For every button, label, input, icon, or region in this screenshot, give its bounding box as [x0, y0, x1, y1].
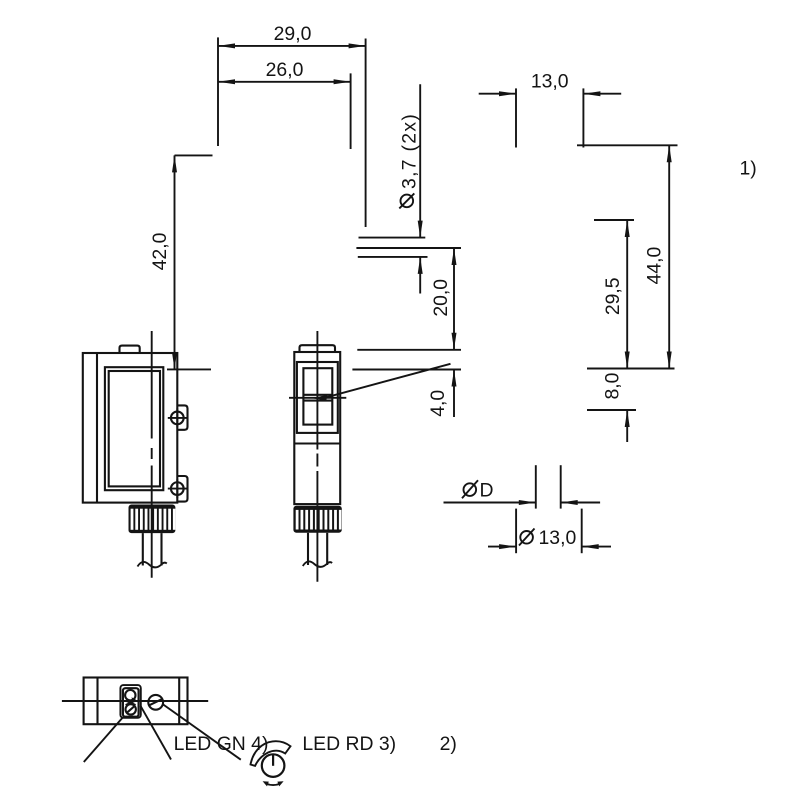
svg-text:LED GN 4): LED GN 4)	[174, 733, 269, 755]
potentiometer symbol slot	[272, 755, 274, 766]
dimension 8,0 arrow tail	[626, 410, 628, 442]
side view cable break	[303, 561, 332, 566]
dimension 26,0 line	[218, 81, 351, 83]
dimension 4,0 line	[453, 370, 455, 418]
housing top reference line	[357, 349, 461, 351]
window top reference line	[352, 369, 461, 371]
dimension diameter 13,0 left extension line	[515, 509, 517, 554]
svg-text:13,0: 13,0	[539, 527, 577, 549]
leader line from lens to 4,0 band	[324, 364, 451, 398]
dimension diameter 13,0 line left tail	[488, 546, 516, 548]
dimension diameter D left extension line	[535, 465, 537, 508]
bottom view body	[84, 678, 188, 725]
front view centerline	[151, 331, 153, 439]
dimension 42,0 bottom tick	[167, 368, 211, 370]
svg-text:8,0: 8,0	[602, 372, 624, 399]
front view body	[83, 353, 178, 503]
svg-text:13,0: 13,0	[531, 71, 569, 93]
dimension 13,0 left extension line	[515, 88, 517, 147]
front view mounting hole upper	[171, 412, 184, 425]
side view centerline	[316, 331, 318, 450]
leader line to potentiometer label	[163, 704, 241, 760]
svg-text:29,0: 29,0	[274, 23, 312, 45]
beam axis line middle	[356, 247, 461, 249]
side view knurled nut	[293, 506, 341, 533]
beam axis line upper	[359, 237, 426, 239]
svg-text:D: D	[480, 480, 494, 502]
side view body	[294, 352, 340, 504]
beam axis line lower	[358, 256, 428, 258]
dimension 42,0 top tick	[175, 154, 213, 156]
bottom view connector inner	[123, 688, 139, 717]
dimension diameter 13,0 label symbol	[520, 531, 533, 544]
svg-text:29,5: 29,5	[602, 277, 624, 315]
svg-text:LED RD 3): LED RD 3)	[302, 733, 396, 755]
svg-text:4,0: 4,0	[427, 390, 449, 417]
leader line to LED GN	[84, 718, 123, 762]
front view inner edge line	[96, 353, 98, 503]
side view window inner	[303, 368, 332, 424]
bottom view connector cross mark	[126, 701, 136, 705]
bottom view potentiometer slot	[149, 699, 163, 706]
dimension 13,0 right extension line	[582, 88, 584, 147]
bottom view connector pin upper	[125, 690, 135, 700]
side view centerline lower	[316, 506, 318, 582]
bottom view left inner line	[96, 678, 98, 725]
front view mounting hole lower	[171, 482, 184, 495]
dimension 29,0 left extension line	[217, 37, 219, 146]
front view mounting tab lower	[177, 476, 187, 502]
front view centerline lower	[151, 505, 153, 578]
svg-text:42,0: 42,0	[149, 232, 171, 270]
dimension 20,0 line	[453, 248, 455, 350]
side view body divider	[294, 442, 340, 444]
dimension 44,0 line	[668, 145, 670, 368]
front view cable right line	[160, 533, 162, 565]
dimension diameter D right extension line	[560, 465, 562, 508]
svg-text:26,0: 26,0	[266, 59, 304, 81]
front view knurled nut	[129, 505, 176, 534]
front view top boss	[120, 346, 140, 353]
svg-text:1): 1)	[740, 158, 757, 180]
bottom view connector pin upper notch	[132, 697, 137, 701]
dimension 26,0 right extension line	[350, 73, 352, 149]
front view cable break	[138, 562, 167, 567]
leader arrowhead at lens	[312, 395, 328, 401]
front view mounting tab upper	[177, 405, 187, 429]
side view lens axis tick	[289, 397, 346, 399]
side view top boss	[300, 345, 336, 352]
dimension 29,5 line	[626, 220, 628, 369]
dimension diameter 3,7 (2x) line lower	[419, 257, 421, 294]
dimension diameter 13,0 line right tail	[582, 546, 611, 548]
svg-text:20,0: 20,0	[430, 279, 452, 317]
dimension 29,5 top tick	[594, 219, 634, 221]
side view window outer	[297, 362, 338, 433]
bottom view connector pin lower	[126, 704, 136, 714]
side view cable left line	[307, 533, 309, 565]
dimension 8,0 bottom line	[587, 409, 636, 411]
dimension diameter D label symbol	[464, 483, 477, 496]
side view lens element bottom line	[303, 400, 332, 402]
potentiometer adjustment arc	[251, 741, 291, 766]
front view cable left line	[142, 533, 144, 565]
front view optical window inner	[109, 371, 160, 486]
dimension diameter D line right tail	[561, 502, 600, 504]
dimension 13,0 line right tail	[583, 93, 621, 95]
dimension diameter 3,7 label symbol	[401, 195, 414, 208]
front view optical window outer	[105, 367, 163, 490]
dimension 13,0 line left tail	[479, 93, 516, 95]
svg-text:3,7 (2x): 3,7 (2x)	[399, 113, 421, 189]
dimension 29,0 right extension line	[365, 39, 367, 228]
side view cable right line	[326, 533, 328, 565]
leader line to LED RD	[141, 706, 172, 760]
bottom view right inner line	[178, 678, 180, 725]
dimension 44,0 bottom tick	[587, 368, 675, 370]
svg-text:44,0: 44,0	[643, 247, 665, 285]
bottom view connector pin lower slot	[127, 706, 135, 713]
svg-text:2): 2)	[440, 733, 457, 755]
bottom view potentiometer	[148, 695, 163, 710]
side view lens element top line	[303, 394, 332, 396]
dimension diameter D line left tail	[444, 502, 536, 504]
dimension 42,0 line	[174, 155, 176, 369]
potentiometer turn arrow	[266, 784, 280, 786]
dimension diameter 3,7 (2x) line upper	[419, 84, 421, 237]
potentiometer symbol circle	[262, 754, 285, 777]
bottom view connector outer	[120, 685, 140, 718]
dimension diameter 13,0 right extension line	[581, 509, 583, 554]
dimension 44,0 top tick	[577, 144, 678, 146]
dimension 29,0 line	[218, 45, 366, 47]
bottom view horizontal centerline	[62, 700, 208, 702]
